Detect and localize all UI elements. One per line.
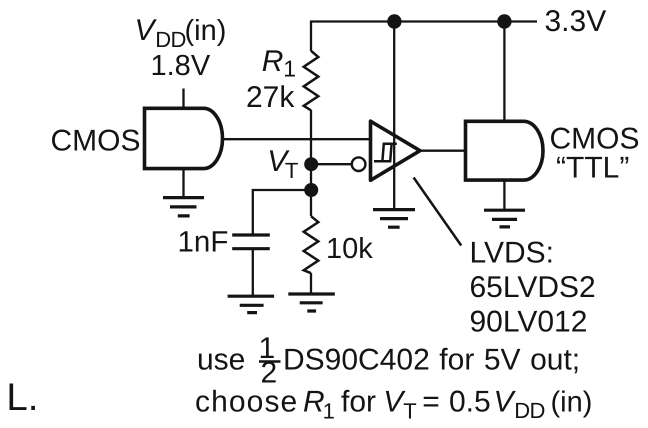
svg-text:1nF: 1nF bbox=[178, 226, 229, 259]
svg-text:1: 1 bbox=[283, 56, 296, 82]
op-amp U2 LVDS receiver triangle bbox=[371, 121, 421, 180]
inverting input bubble bbox=[352, 157, 366, 171]
svg-text:R: R bbox=[262, 45, 284, 78]
capacitor C1 1nF bbox=[232, 235, 270, 249]
svg-text:L.: L. bbox=[6, 376, 38, 419]
wire receiver output to right gate bbox=[420, 150, 466, 152]
power wire of right gate bbox=[503, 22, 505, 122]
ground of 10k bbox=[288, 294, 335, 311]
svg-text:(in): (in) bbox=[185, 15, 227, 47]
svg-text:90LV012: 90LV012 bbox=[470, 306, 588, 339]
svg-text:0.5: 0.5 bbox=[449, 386, 491, 419]
wire 10k to ground bbox=[310, 273, 312, 294]
annotation pointer line to LVDS bbox=[414, 178, 462, 246]
svg-text:use: use bbox=[197, 344, 245, 377]
svg-text:V: V bbox=[135, 14, 158, 47]
svg-text:T: T bbox=[285, 158, 298, 183]
fraction bar bbox=[259, 360, 281, 362]
svg-text:10k: 10k bbox=[326, 233, 373, 265]
ground of right gate bbox=[503, 180, 505, 210]
resistor R2 10k bbox=[304, 216, 319, 273]
svg-text:DD: DD bbox=[155, 27, 186, 52]
junction dot on rail above receiver bbox=[387, 14, 401, 28]
svg-text:LVDS:: LVDS: bbox=[470, 237, 554, 270]
node VT junction dot bbox=[304, 157, 318, 171]
ground of capacitor bbox=[228, 296, 275, 312]
svg-text:1.8V: 1.8V bbox=[151, 50, 211, 82]
svg-text:DD: DD bbox=[514, 398, 545, 423]
svg-text:65LVDS2: 65LVDS2 bbox=[470, 271, 596, 304]
svg-text:“TTL”: “TTL” bbox=[556, 152, 629, 185]
schmitt hysteresis symbol bbox=[374, 144, 397, 161]
receiver power/ground line through symbol bbox=[393, 22, 395, 210]
svg-text:V: V bbox=[494, 386, 517, 419]
svg-text:(in): (in) bbox=[551, 387, 593, 419]
svg-text:CMOS: CMOS bbox=[550, 122, 640, 155]
node capacitor tap junction dot bbox=[304, 183, 318, 197]
gate U1 left CMOS driver bbox=[145, 108, 223, 168]
svg-text:CMOS: CMOS bbox=[51, 125, 141, 158]
svg-text:3.3V: 3.3V bbox=[545, 5, 607, 38]
svg-text:27k: 27k bbox=[246, 81, 295, 114]
wire VT to inverting input bbox=[311, 163, 352, 165]
wire 3.3V rail bbox=[311, 20, 537, 22]
svg-text:1: 1 bbox=[323, 399, 335, 424]
svg-text:DS90C402 for 5V out;: DS90C402 for 5V out; bbox=[283, 344, 580, 377]
gate U3 right CMOS TTL bbox=[466, 121, 544, 180]
wire capacitor to ground bbox=[252, 249, 254, 297]
VDD power stub of U1 bbox=[182, 89, 184, 109]
resistor R1 bbox=[304, 51, 319, 111]
wire cap tap to capacitor bbox=[253, 189, 311, 235]
junction dot on rail above right gate bbox=[497, 14, 511, 28]
ground of U1 bbox=[182, 169, 184, 198]
wire R1 bottom to VT node and down to 10k bbox=[310, 110, 312, 216]
wire rail left drop to R1 bbox=[310, 21, 312, 52]
svg-text:choose: choose bbox=[195, 386, 298, 419]
ground of receiver bbox=[373, 210, 415, 228]
wire U1 output to receiver input bbox=[222, 138, 370, 140]
svg-text:R: R bbox=[303, 386, 325, 419]
svg-text:=: = bbox=[422, 386, 440, 419]
svg-text:for: for bbox=[341, 386, 376, 419]
svg-text:T: T bbox=[403, 399, 416, 424]
